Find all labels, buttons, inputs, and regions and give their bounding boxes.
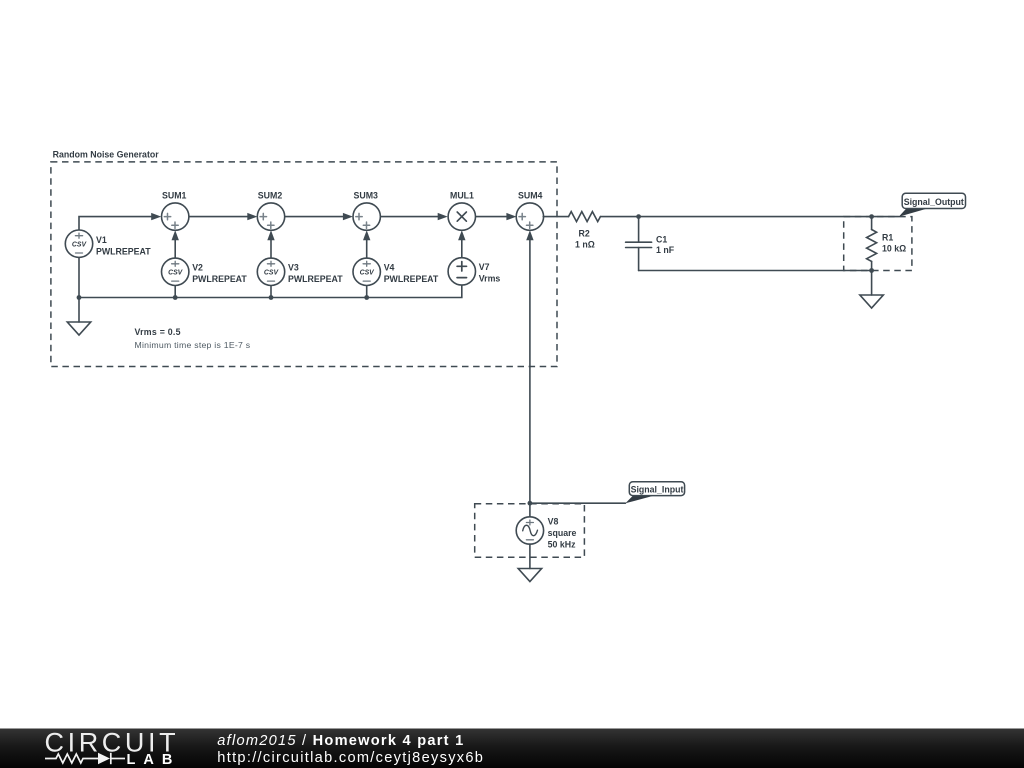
resistor R2 <box>569 212 601 250</box>
wire V8 node to Signal_Input <box>530 502 626 504</box>
junction at C1 top <box>636 214 641 219</box>
voltage source V7 <box>448 258 500 285</box>
svg-text:V4: V4 <box>384 263 395 273</box>
svg-text:PWLREPEAT: PWLREPEAT <box>288 274 343 284</box>
capacitor C1 <box>626 217 675 271</box>
svg-text:CSV: CSV <box>72 242 88 249</box>
voltage source V2 CSV <box>162 258 248 285</box>
wire R2 to C1 to R1 to Signal_Output <box>600 216 898 218</box>
junction dots on bottom rail <box>77 295 370 300</box>
enclosure Random Noise Generator <box>51 150 557 367</box>
svg-text:R1: R1 <box>882 233 893 243</box>
node flag Signal_Input <box>625 482 684 504</box>
svg-text:R2: R2 <box>579 229 590 239</box>
voltage source V1 CSV <box>65 230 151 257</box>
svg-text:V3: V3 <box>288 263 299 273</box>
resistor R1 <box>867 217 907 271</box>
wire V2 to SUM1 with arrow <box>172 230 179 258</box>
svg-text:Signal_Output: Signal_Output <box>904 197 964 207</box>
multiplier MUL1 <box>448 191 475 231</box>
voltage source V8 square <box>516 503 576 550</box>
wire V1 top to SUM1 with arrow <box>79 213 161 230</box>
wire V8 up to SUM4 with arrow <box>526 230 533 503</box>
svg-text:SUM2: SUM2 <box>258 191 283 201</box>
ground under R1 <box>860 271 883 309</box>
svg-text:1 nF: 1 nF <box>656 245 675 255</box>
svg-text:V1: V1 <box>96 235 107 245</box>
svg-text:SUM4: SUM4 <box>518 191 543 201</box>
svg-text:MUL1: MUL1 <box>450 191 474 201</box>
summer SUM4 <box>516 191 543 231</box>
summer SUM2 <box>257 191 284 231</box>
wire SUM2 to SUM3 with arrow <box>285 213 353 220</box>
footer bar <box>0 729 1024 768</box>
svg-text:SUM1: SUM1 <box>162 191 187 201</box>
junction at R1 top <box>869 214 874 219</box>
wire V7 to MUL1 with arrow <box>458 230 465 258</box>
svg-text:Vrms = 0.5: Vrms = 0.5 <box>135 327 181 337</box>
voltage source V4 CSV <box>353 258 439 285</box>
svg-text:Random Noise Generator: Random Noise Generator <box>53 150 160 160</box>
svg-text:Minimum time step is 1E-7 s: Minimum time step is 1E-7 s <box>135 340 251 350</box>
wire bottom rail of noise generator <box>79 257 462 297</box>
wire bottom rail C1 to R1 <box>639 270 872 272</box>
enclosure box around V8 <box>475 504 585 558</box>
ground under V8 <box>518 569 541 582</box>
node flag Signal_Output <box>899 193 966 216</box>
wire SUM1 to SUM2 with arrow <box>189 213 258 220</box>
svg-text:10 kΩ: 10 kΩ <box>882 244 906 254</box>
junction at V8 top <box>528 501 533 506</box>
junction at R1 bottom <box>869 268 874 273</box>
summer SUM3 <box>353 191 380 231</box>
voltage source V3 CSV <box>257 258 343 285</box>
svg-text:SUM3: SUM3 <box>354 191 379 201</box>
svg-text:Signal_Input: Signal_Input <box>631 485 684 495</box>
svg-text:LAB: LAB <box>127 752 181 768</box>
svg-text:CSV: CSV <box>168 270 184 277</box>
svg-text:PWLREPEAT: PWLREPEAT <box>384 274 439 284</box>
enclosure box around R1 <box>844 217 912 271</box>
wire MUL1 to SUM4 with arrow <box>475 213 516 220</box>
CircuitLab logo resistor-diode symbol <box>45 753 125 764</box>
svg-text:V7: V7 <box>479 262 490 272</box>
svg-text:V2: V2 <box>192 263 203 273</box>
svg-text:CSV: CSV <box>264 270 280 277</box>
svg-text:http://circuitlab.com/ceytj8ey: http://circuitlab.com/ceytj8eysyx6b <box>217 750 484 766</box>
wire SUM4 to R2 <box>543 216 568 218</box>
svg-text:1 nΩ: 1 nΩ <box>575 240 595 250</box>
svg-text:square: square <box>548 528 577 538</box>
summer SUM1 <box>162 191 189 231</box>
svg-text:C1: C1 <box>656 235 667 245</box>
wire V8 to ground <box>529 544 531 569</box>
svg-text:PWLREPEAT: PWLREPEAT <box>96 247 151 257</box>
ground under V1 <box>67 298 90 336</box>
svg-text:CSV: CSV <box>360 270 376 277</box>
svg-text:V8: V8 <box>548 517 559 527</box>
svg-text:aflom2015 / Homework 4 part 1: aflom2015 / Homework 4 part 1 <box>217 733 464 749</box>
wire V3 to SUM2 with arrow <box>267 230 274 258</box>
svg-text:50 kHz: 50 kHz <box>548 540 576 550</box>
wire SUM3 to MUL1 with arrow <box>380 213 448 220</box>
wire V4 to SUM3 with arrow <box>363 230 370 258</box>
svg-text:PWLREPEAT: PWLREPEAT <box>192 274 247 284</box>
svg-text:Vrms: Vrms <box>479 274 501 284</box>
